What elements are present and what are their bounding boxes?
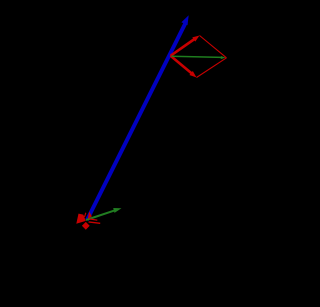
- green velocity arrowhead: [113, 208, 121, 213]
- red component arrow P2 (lower-left side of parallelogram) shaft: [171, 56, 192, 73]
- thin red line D1 at origin: [89, 219, 97, 220]
- green resultant arrow (parallelogram diagonal) shaft: [172, 56, 222, 57]
- thin red line D2 at origin: [89, 222, 101, 223]
- red component arrow P2 arrowhead: [189, 71, 196, 78]
- thin red parallelogram line (top vertex to right vertex): [200, 36, 227, 58]
- red diamond arrowhead B (below origin): [82, 222, 90, 230]
- small red sliver left of blue shaft at origin: [84, 213, 86, 218]
- red component arrow P1 arrowhead: [192, 36, 199, 42]
- green resultant arrowhead: [221, 56, 226, 59]
- vector V arrowhead: [181, 15, 188, 25]
- green velocity arrow at origin shaft: [86, 210, 115, 220]
- vector V (blue main arrow shaft): [87, 22, 186, 220]
- red sliver C (right of blue shaft at origin): [88, 211, 92, 218]
- thin red parallelogram line (bottom vertex to right vertex): [197, 58, 227, 78]
- red component arrow P1 (upper-left side of parallelogram) shaft: [171, 39, 195, 56]
- red arrowhead A (pointing down-left from origin): [76, 214, 86, 224]
